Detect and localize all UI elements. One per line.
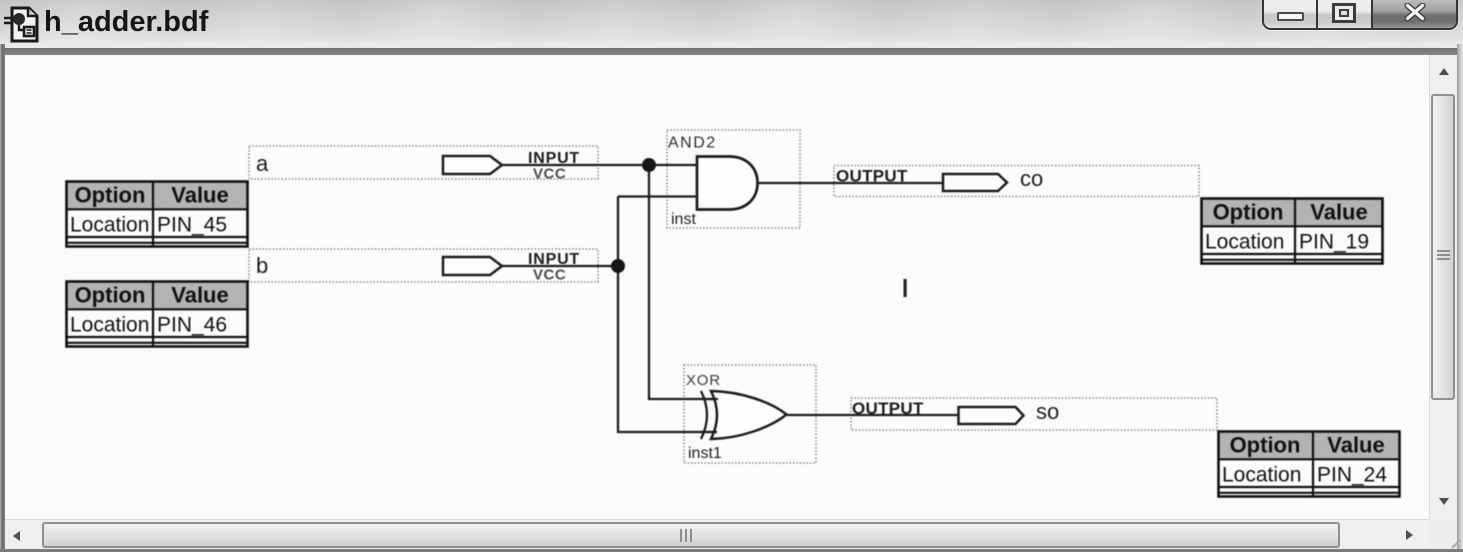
svg-text:INPUT: INPUT bbox=[528, 251, 580, 268]
svg-text:Value: Value bbox=[1327, 433, 1384, 458]
svg-text:Option: Option bbox=[75, 283, 146, 308]
svg-text:OUTPUT: OUTPUT bbox=[852, 399, 924, 418]
svg-text:inst: inst bbox=[671, 211, 696, 228]
svg-text:XOR: XOR bbox=[686, 372, 721, 389]
svg-text:Location: Location bbox=[70, 214, 149, 237]
svg-text:co: co bbox=[1020, 166, 1043, 191]
svg-text:a: a bbox=[256, 151, 269, 176]
svg-text:AND2: AND2 bbox=[668, 135, 717, 152]
svg-text:PIN_19: PIN_19 bbox=[1299, 231, 1369, 254]
svg-text:OUTPUT: OUTPUT bbox=[836, 167, 908, 186]
svg-text:VCC: VCC bbox=[533, 267, 566, 284]
svg-text:inst1: inst1 bbox=[688, 445, 722, 462]
svg-text:Option: Option bbox=[1230, 433, 1301, 458]
svg-text:Value: Value bbox=[171, 283, 228, 308]
svg-text:Option: Option bbox=[75, 183, 146, 208]
svg-text:b: b bbox=[256, 253, 268, 278]
svg-text:PIN_45: PIN_45 bbox=[157, 214, 227, 237]
svg-text:PIN_46: PIN_46 bbox=[157, 314, 227, 337]
svg-text:Value: Value bbox=[171, 183, 228, 208]
svg-text:PIN_24: PIN_24 bbox=[1317, 464, 1387, 487]
svg-text:so: so bbox=[1036, 399, 1059, 424]
svg-text:Location: Location bbox=[1205, 231, 1284, 254]
svg-text:Location: Location bbox=[70, 314, 149, 337]
svg-text:INPUT: INPUT bbox=[528, 150, 580, 167]
svg-text:Value: Value bbox=[1310, 200, 1367, 225]
svg-text:VCC: VCC bbox=[533, 166, 566, 183]
svg-text:Option: Option bbox=[1213, 200, 1284, 225]
svg-text:Location: Location bbox=[1222, 464, 1301, 487]
